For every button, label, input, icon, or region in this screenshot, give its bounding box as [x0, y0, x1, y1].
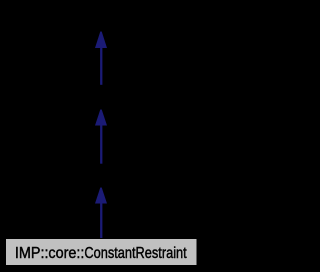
wire arrow 1 (top inheritance arrow)	[95, 32, 107, 85]
svg-text:IMP::core::ConstantRestraint: IMP::core::ConstantRestraint	[15, 245, 187, 262]
wire arrow 2 (middle inheritance arrow)	[95, 110, 107, 164]
node box IMP::core::ConstantRestraint	[6, 239, 198, 266]
wire arrow 3 (bottom inheritance arrow)	[95, 188, 107, 239]
